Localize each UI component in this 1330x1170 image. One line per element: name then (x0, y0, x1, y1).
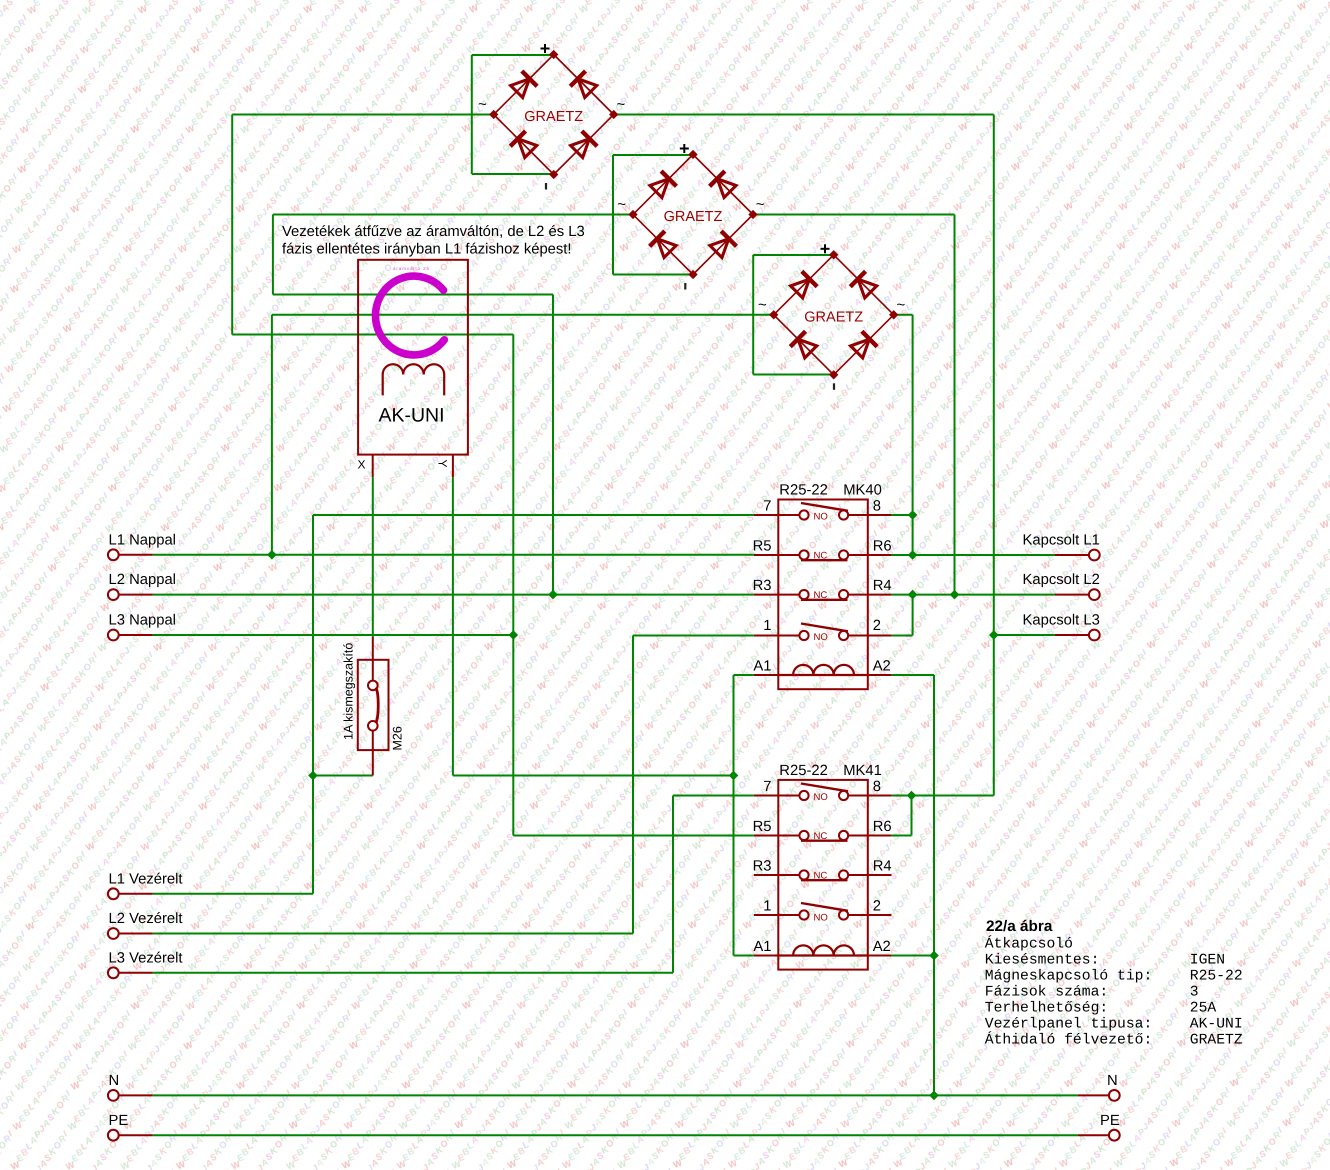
wire B3 DC loop top (753, 254, 834, 256)
pin stub MK41 pin R4 (868, 874, 892, 876)
svg-text:2: 2 (873, 618, 881, 634)
svg-text:25A: 25A (1190, 1001, 1217, 1017)
svg-text:R25-22: R25-22 (1190, 969, 1243, 985)
svg-text:L2 Vezérelt: L2 Vezérelt (109, 911, 183, 927)
junction MK40 pin 8 (908, 510, 918, 520)
svg-text:Kapcsolt L2: Kapcsolt L2 (1023, 572, 1100, 588)
svg-text:NC: NC (814, 590, 828, 601)
wire to bridge B2 AC left (273, 214, 634, 216)
svg-text:fázis ellentétes irányban L1 f: fázis ellentétes irányban L1 fázishoz ké… (282, 242, 572, 258)
node B3 AC left vertex (769, 310, 778, 319)
wire MK41 8 to R6 jog (911, 796, 913, 836)
pin stub MK41 pin R5 (754, 835, 779, 837)
pin stub terminal N left (119, 1094, 153, 1096)
pin stub MK40 pin R3 (754, 594, 779, 596)
pin stub MK40 pin R4 (868, 594, 892, 596)
wire MK40 pin 2 (891, 635, 912, 637)
svg-text:Mágneskapcsoló tip:: Mágneskapcsoló tip: (985, 969, 1152, 985)
pin stub terminal L3 Nappal (119, 634, 153, 636)
bridge rectifier B2 GRAETZ (628, 150, 757, 279)
pin stub fuse M26 top (372, 637, 374, 681)
wire B1 AC right horizontal (613, 114, 994, 116)
label B3 minus (833, 383, 835, 390)
junction A1 riser (729, 771, 739, 781)
wire L2 Vezerelt riser (632, 636, 634, 934)
pin stub MK40 pin 8 (868, 514, 892, 516)
svg-text:MK40: MK40 (843, 483, 882, 499)
wire AK-UNI X pin to fuse top (372, 477, 374, 637)
wire MK40 2 to R4 jog (912, 595, 914, 636)
MK40 contact R5-R6 NC (778, 550, 868, 560)
node B3 AC right vertex (889, 310, 898, 319)
pin stub MK41 pin A2 (868, 955, 892, 957)
wire to MK41 pin R5 (513, 835, 754, 837)
svg-text:3: 3 (1190, 985, 1199, 1001)
pin stub terminal L2 Nappal (119, 594, 153, 596)
svg-text:~: ~ (758, 296, 767, 313)
wire AK-UNI Y pin down (452, 477, 454, 775)
svg-text:AK-UNI: AK-UNI (378, 405, 444, 427)
wire B2 DC loop top (613, 154, 693, 156)
svg-text:GRAETZ: GRAETZ (664, 209, 723, 225)
pin stub MK40 pin 7 (754, 514, 779, 516)
terminal circle N right (1109, 1090, 1120, 1101)
svg-text:8: 8 (873, 498, 881, 514)
wire L3 Vezerelt riser (672, 796, 674, 973)
bridge rectifier B1 GRAETZ (489, 50, 618, 179)
wire CT pass 3 to bridge B1 AC left (232, 114, 494, 116)
svg-text:R25-22: R25-22 (779, 483, 828, 499)
svg-text:R3: R3 (753, 859, 772, 875)
pin stub MK40 pin A1 (754, 674, 779, 676)
MK41 contact R5-R6 NC (778, 831, 868, 841)
node B1 minus vertex (549, 170, 558, 179)
wire to MK40 pin 7 (313, 514, 754, 516)
wire B1 AC right drop (993, 115, 995, 796)
pin stub MK40 pin 2 (868, 635, 892, 637)
pin stub terminal L1 Nappal (119, 554, 153, 556)
svg-text:A2: A2 (873, 939, 891, 955)
pin stub terminal PE right (1078, 1134, 1109, 1136)
wire MK40 R6 to Kapcsolt L1 (891, 554, 1055, 556)
label B3 plus (821, 244, 830, 253)
CT secondary coil (383, 364, 445, 395)
wire CT pass 3 horizontal (232, 334, 513, 336)
node B2 plus vertex (688, 150, 697, 159)
pin stub MK40 pin 1 (754, 635, 779, 637)
node B2 AC right vertex (748, 210, 757, 219)
label B2 minus (684, 283, 686, 290)
pin stub AK-UNI X (372, 455, 374, 478)
wire MK41 A2 (891, 955, 934, 957)
svg-text:NC: NC (814, 871, 828, 882)
MK40 contact R3-R4 NC (778, 590, 868, 600)
svg-text:Áthidaló félvezető:: Áthidaló félvezető: (985, 1031, 1152, 1049)
terminal circle L2 Vezerelt (108, 928, 119, 939)
wire MK40 R4 to Kapcsolt L2 (891, 594, 1055, 596)
bridge rectifier B3 GRAETZ (769, 250, 898, 379)
MK41 contact 1-2 NO (778, 903, 868, 920)
diode B1 top-left (509, 71, 537, 99)
terminal circle L1 Nappal (108, 549, 119, 560)
terminal circle Kapcsolt L3 (1089, 630, 1100, 641)
svg-text:X: X (358, 458, 366, 472)
wire B2 drop (272, 215, 274, 295)
MK41 coil A1-A2 (778, 954, 868, 956)
junction MK41 pin 8 (907, 791, 917, 801)
relay MK40 body (778, 500, 868, 690)
svg-text:NO: NO (814, 913, 828, 924)
svg-text:L1 Vezérelt: L1 Vezérelt (109, 871, 183, 887)
pin stub terminal Kapcsolt L2 (1055, 594, 1089, 596)
diode B3 bottom-right (849, 331, 877, 359)
junction Kapcsolt L3 riser (989, 630, 999, 640)
svg-text:8: 8 (873, 779, 881, 795)
wire net L3 Nappal horizontal (153, 634, 514, 636)
pin stub MK41 pin A1 (754, 955, 779, 957)
diode B3 top-left (789, 271, 817, 299)
fuse M26 bottom contact circle (368, 721, 378, 731)
svg-text:R5: R5 (753, 539, 772, 555)
fuse breaker M26 body (358, 660, 389, 750)
label B2 plus (680, 144, 689, 153)
pin stub terminal Kapcsolt L1 (1055, 554, 1089, 556)
wire MK40 A2 (891, 674, 934, 676)
wire L2 Vezerelt horizontal (153, 933, 633, 935)
svg-text:L1 Nappal: L1 Nappal (109, 532, 176, 548)
svg-text:7: 7 (763, 498, 771, 514)
relay MK41 body (778, 780, 868, 970)
wire to MK40 pin 1 (633, 635, 754, 637)
pin stub MK41 pin R3 (754, 874, 779, 876)
svg-text:R4: R4 (873, 578, 892, 594)
wire CT pass 1 horizontal (273, 294, 553, 296)
node B1 AC left vertex (489, 110, 498, 119)
fuse M26 lever (376, 688, 378, 723)
svg-text:Kapcsolt L1: Kapcsolt L1 (1023, 533, 1100, 549)
CT core magenta arc (375, 276, 444, 355)
svg-text:PE: PE (1100, 1113, 1120, 1129)
MK40 contact 7-8 NO (778, 503, 868, 520)
node B2 minus vertex (688, 270, 697, 279)
svg-text:GRAETZ: GRAETZ (524, 109, 583, 125)
wire CT pass 2 to bridge B3 AC left (272, 314, 774, 316)
svg-text:áramváltó 25: áramváltó 25 (393, 266, 429, 271)
junction L3 Nappal riser (508, 630, 518, 640)
MK40 coil A1-A2 (778, 674, 868, 676)
diode B2 top-left (648, 171, 676, 199)
wire B2 AC right horizontal (753, 214, 955, 216)
svg-text:Átkapcsoló: Átkapcsoló (985, 935, 1073, 953)
label B1 minus (545, 183, 547, 190)
wire Kapcsolt L3 (994, 634, 1055, 636)
pin stub MK40 pin R5 (754, 554, 779, 556)
pin stub MK41 pin 8 (868, 795, 892, 797)
wire B3 DC loop bottom (753, 374, 834, 376)
svg-text:A1: A1 (753, 659, 771, 675)
svg-text:~: ~ (617, 196, 626, 213)
svg-text:GRAETZ: GRAETZ (1190, 1033, 1243, 1049)
wire net L1 Nappal horizontal (153, 554, 754, 556)
label B1 plus (541, 44, 550, 53)
pin stub AK-UNI Y (452, 455, 454, 478)
wire Y pin to A1 riser (453, 775, 734, 777)
terminal circle Kapcsolt L2 (1089, 589, 1100, 600)
svg-text:Fázisok száma:: Fázisok száma: (985, 985, 1108, 1001)
svg-text:2: 2 (873, 899, 881, 915)
svg-text:AK-UNI: AK-UNI (1190, 1017, 1243, 1033)
wire B1 DC loop bottom (472, 173, 554, 175)
wire L1 Vezerelt riser (312, 515, 314, 894)
current transformer panel AK-UNI box (358, 260, 468, 455)
wire net L2 Nappal horizontal (153, 594, 754, 596)
svg-text:Y: Y (436, 460, 450, 468)
wire CT pass 1 drop to L2 (552, 295, 554, 595)
svg-text:A2: A2 (873, 659, 891, 675)
svg-text:R6: R6 (873, 539, 892, 555)
wire N horizontal (153, 1094, 1078, 1096)
pin stub MK41 pin 1 (754, 914, 779, 916)
svg-text:L3 Vezérelt: L3 Vezérelt (109, 950, 183, 966)
svg-text:N: N (1107, 1073, 1118, 1089)
junction MK41 A2 (929, 951, 939, 961)
wire MK41 A1 (734, 955, 754, 957)
pin stub MK41 pin 7 (754, 795, 779, 797)
terminal circle Kapcsolt L1 (1089, 550, 1100, 561)
svg-text:~: ~ (756, 196, 765, 213)
svg-text:1: 1 (763, 618, 771, 634)
svg-text:Kiesésmentes:: Kiesésmentes: (985, 953, 1100, 969)
svg-text:PE: PE (109, 1113, 129, 1129)
svg-text:Vezetékek átfűzve az áramváltó: Vezetékek átfűzve az áramváltón, de L2 é… (282, 224, 585, 240)
wire B3 DC loop left (752, 255, 754, 375)
MK41 contact R3-R4 NC (778, 870, 868, 880)
wire B1 DC loop left (471, 55, 473, 174)
svg-text:NO: NO (814, 792, 828, 803)
svg-text:~: ~ (478, 96, 487, 113)
terminal circle N left (108, 1090, 119, 1101)
terminal circle PE left (108, 1130, 119, 1141)
pin stub terminal Kapcsolt L3 (1055, 634, 1089, 636)
svg-text:N: N (109, 1073, 120, 1089)
svg-text:L3 Nappal: L3 Nappal (109, 613, 176, 629)
junction MK40 R4 (908, 590, 918, 600)
svg-text:~: ~ (897, 296, 906, 313)
svg-text:R4: R4 (873, 859, 892, 875)
pin stub terminal PE left (119, 1134, 153, 1136)
wire L1 Vezerelt horizontal (153, 893, 313, 895)
svg-text:7: 7 (763, 779, 771, 795)
wire B2 AC right drop (954, 215, 956, 595)
svg-text:NC: NC (814, 551, 828, 562)
junction L2 Nappal riser (548, 590, 558, 600)
diode B2 top-right (710, 171, 738, 199)
wire B3 AC right (894, 314, 913, 316)
pin stub MK40 pin A2 (868, 674, 892, 676)
pin stub MK41 pin 2 (868, 914, 892, 916)
wire to MK41 pin 7 (673, 795, 754, 797)
diode B3 top-right (850, 271, 878, 299)
wire CT pass 3 riser to MK41 R5 (512, 335, 514, 836)
svg-text:22/a ábra: 22/a ábra (986, 918, 1053, 935)
terminal circle L1 Vezerelt (108, 888, 119, 899)
svg-text:L2 Nappal: L2 Nappal (109, 572, 176, 588)
junction MK40 R6 (908, 550, 918, 560)
MK40 contact 1-2 NO (778, 624, 868, 641)
wire L1 riser to CT pass 2 (271, 315, 273, 555)
wire B1 DC loop top (472, 54, 554, 56)
svg-text:Vezérlpanel tipusa:: Vezérlpanel tipusa: (985, 1017, 1152, 1033)
diode B2 bottom-left (650, 231, 678, 259)
wire MK40 pin 8 (891, 514, 912, 516)
svg-text:R25-22: R25-22 (779, 763, 828, 779)
svg-text:Terhelhetőség:: Terhelhetőség: (985, 1001, 1108, 1017)
wire B2 DC loop bottom (613, 274, 693, 276)
node B3 minus vertex (829, 370, 838, 379)
wire to MK41 pin8 junction (912, 795, 994, 797)
wire MK41 R6 (891, 835, 911, 837)
svg-text:M26: M26 (391, 726, 405, 750)
svg-text:~: ~ (617, 96, 626, 113)
svg-text:1A kismegszakító: 1A kismegszakító (342, 643, 356, 740)
wire branch to fuse bottom (313, 775, 373, 777)
MK41 contact 7-8 NO (778, 784, 868, 801)
diode B1 bottom-left (510, 131, 538, 159)
svg-text:R5: R5 (753, 819, 772, 835)
diode B1 top-right (570, 71, 598, 99)
svg-text:NC: NC (814, 831, 828, 842)
svg-text:Kapcsolt L3: Kapcsolt L3 (1023, 613, 1100, 629)
diode B2 bottom-right (708, 231, 736, 259)
junction L1 Nappal riser (267, 550, 277, 560)
terminal circle PE right (1109, 1130, 1120, 1141)
terminal circle L2 Nappal (108, 589, 119, 600)
wire CT pass 3 drop (231, 115, 233, 335)
wire L3 Vezerelt horizontal (153, 972, 673, 974)
pin stub fuse M26 bottom (372, 730, 374, 776)
junction N line (929, 1091, 939, 1101)
pin stub terminal L1 Vezerelt (119, 893, 153, 895)
terminal circle L3 Vezerelt (108, 967, 119, 978)
fuse M26 top contact circle (368, 681, 378, 691)
wire MK41 pin 8 (891, 795, 911, 797)
node B1 plus vertex (549, 50, 558, 59)
pin stub MK40 pin R6 (868, 554, 892, 556)
pin stub MK41 pin R6 (868, 835, 892, 837)
junction fuse branch (308, 771, 318, 781)
wire MK40 A1 (734, 674, 754, 676)
pin stub terminal N right (1078, 1094, 1109, 1096)
diode B3 bottom-left (790, 331, 818, 359)
junction Kapcsolt L2 riser (950, 590, 960, 600)
svg-text:R6: R6 (873, 819, 892, 835)
terminal circle L3 Nappal (108, 630, 119, 641)
svg-text:IGEN: IGEN (1190, 953, 1225, 969)
svg-text:NO: NO (814, 512, 828, 523)
wire B2 DC loop left (612, 155, 614, 275)
wire A2 drop to N (933, 675, 935, 1095)
wire PE horizontal (153, 1134, 1078, 1136)
diode B1 bottom-right (569, 131, 597, 159)
pin stub terminal L2 Vezerelt (119, 933, 153, 935)
svg-text:GRAETZ: GRAETZ (804, 309, 863, 325)
node B3 plus vertex (829, 250, 838, 259)
node B1 AC right vertex (609, 110, 618, 119)
svg-text:MK41: MK41 (843, 763, 882, 779)
svg-text:1: 1 (763, 899, 771, 915)
node B2 AC left vertex (628, 210, 637, 219)
wire B3 AC right drop (912, 315, 914, 555)
svg-text:NO: NO (814, 632, 828, 643)
svg-text:A1: A1 (753, 939, 771, 955)
wire A1 riser MK40 to MK41 (733, 675, 735, 956)
svg-text:R3: R3 (753, 578, 772, 594)
pin stub terminal L3 Vezerelt (119, 972, 153, 974)
